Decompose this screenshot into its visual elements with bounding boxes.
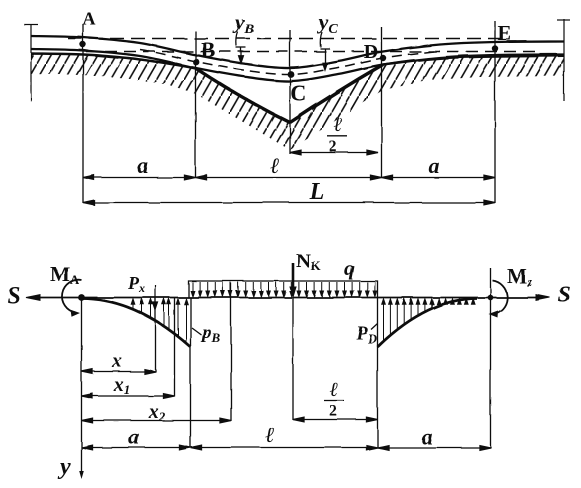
pD curve <box>378 299 478 348</box>
px arrow <box>153 285 158 310</box>
svg-text:a: a <box>429 153 440 178</box>
dim a-l-a bottom <box>82 445 491 450</box>
q arrows <box>191 282 377 297</box>
svg-text:S: S <box>7 283 20 309</box>
dashed original pipe bottom <box>86 51 540 53</box>
pB arrows <box>131 299 188 343</box>
support dot E <box>488 295 494 301</box>
dim l/2 bottom <box>293 417 378 422</box>
y axis line <box>81 298 83 477</box>
svg-text:ℓ: ℓ <box>265 422 274 447</box>
point B <box>193 59 200 66</box>
support dot A <box>78 294 85 301</box>
E ext line <box>490 268 492 448</box>
dim x1 <box>82 394 175 399</box>
D ext line <box>377 347 379 448</box>
svg-text:x: x <box>111 350 122 372</box>
svg-text:q: q <box>344 256 355 280</box>
dim x <box>82 369 156 374</box>
svg-text:S: S <box>558 282 571 307</box>
svg-text:y: y <box>57 454 71 480</box>
dim L <box>83 200 495 205</box>
force NK <box>290 263 296 297</box>
right edge tick <box>563 19 565 101</box>
label pB <box>192 328 202 335</box>
label PD <box>371 324 378 330</box>
ground surface right <box>383 56 564 65</box>
pipe top edge <box>31 36 564 68</box>
svg-text:a: a <box>422 424 433 449</box>
washout V right wall <box>290 65 383 123</box>
svg-text:a: a <box>129 424 140 449</box>
washout V left wall <box>196 69 290 123</box>
svg-text:L: L <box>309 179 325 205</box>
line C <box>289 30 291 154</box>
x1 ext line <box>174 298 176 397</box>
dim x2 <box>82 418 232 423</box>
y axis arrowhead <box>79 471 84 479</box>
line B <box>195 31 197 178</box>
svg-text:2: 2 <box>329 139 337 156</box>
yC arrow <box>320 32 330 70</box>
moment MA arc <box>62 280 82 317</box>
svg-text:D: D <box>364 41 378 63</box>
left edge tick <box>30 24 32 101</box>
dim l/2 top <box>290 150 378 155</box>
B ext line <box>190 298 192 449</box>
center ext line <box>292 298 294 421</box>
line D <box>381 27 383 178</box>
pB curve <box>82 299 191 348</box>
extension verticals bottom <box>82 268 491 476</box>
svg-text:C: C <box>290 81 307 106</box>
ground surface left <box>31 54 196 69</box>
svg-text:E: E <box>497 21 511 45</box>
point A <box>80 41 86 47</box>
svg-text:ℓ: ℓ <box>334 114 343 136</box>
svg-text:ℓ: ℓ <box>270 153 279 178</box>
point E <box>492 45 498 51</box>
svg-text:a: a <box>138 153 149 178</box>
line E <box>494 21 496 203</box>
x ext line <box>155 298 157 373</box>
x2 ext line <box>230 283 232 421</box>
dashed pipe axis in sag <box>140 50 440 75</box>
svg-text:B: B <box>201 37 216 62</box>
distributed load q outline <box>189 281 378 347</box>
hatch band below ground <box>31 54 564 151</box>
point D <box>380 55 386 61</box>
dashed original pipe top <box>68 38 508 40</box>
beam line with S arrows <box>26 295 550 301</box>
line A <box>82 24 84 203</box>
yB arrow <box>236 32 246 63</box>
dim a-l-a top <box>83 175 495 180</box>
pD arrows <box>382 299 475 342</box>
moment ME arc <box>489 281 508 318</box>
point C <box>288 71 295 78</box>
svg-text:ℓ: ℓ <box>330 379 339 401</box>
svg-text:2: 2 <box>329 403 337 420</box>
pipe bottom edge <box>31 49 564 81</box>
svg-text:A: A <box>83 9 96 29</box>
